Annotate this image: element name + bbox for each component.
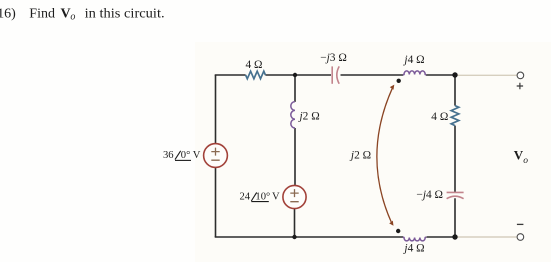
wire bottom <box>215 236 456 238</box>
minus sign terminal <box>517 223 524 225</box>
svg-text:−j4 Ω: −j4 Ω <box>416 189 443 201</box>
polarity dot top <box>397 79 401 83</box>
arrowhead bottom <box>389 221 393 226</box>
wire middle vertical <box>294 75 297 237</box>
svg-text:V: V <box>61 7 71 22</box>
node bottom right <box>452 234 457 239</box>
node top middle <box>293 73 297 77</box>
svg-text:j4 Ω: j4 Ω <box>402 54 424 66</box>
inductor j4 top <box>403 71 427 75</box>
svg-text:in this circuit.: in this circuit. <box>85 7 165 22</box>
svg-text:24: 24 <box>240 191 251 202</box>
capacitor -j3 <box>332 66 339 83</box>
plus sign terminal <box>517 83 523 89</box>
svg-text:j2 Ω: j2 Ω <box>349 149 371 161</box>
arrowhead top <box>390 85 395 90</box>
svg-text:V: V <box>193 150 201 161</box>
svg-text:−j3 Ω: −j3 Ω <box>320 52 347 64</box>
svg-text:V: V <box>514 147 524 162</box>
wire top <box>215 74 456 76</box>
node bottom middle <box>292 235 296 239</box>
label 36 angle 0 V <box>163 150 201 161</box>
resistor R top 4ohm <box>246 71 266 79</box>
svg-text:o: o <box>70 12 75 23</box>
svg-text:4 Ω: 4 Ω <box>245 59 262 71</box>
svg-text:j2 Ω: j2 Ω <box>298 110 320 122</box>
polarity dot bottom <box>396 229 400 233</box>
terminal bottom <box>517 234 524 241</box>
svg-text:Find: Find <box>29 7 55 22</box>
label 24 angle 10 V <box>240 191 280 202</box>
svg-text:36: 36 <box>163 150 174 161</box>
wire right vertical <box>454 75 456 237</box>
svg-text:o: o <box>523 156 528 166</box>
terminal top <box>517 72 524 79</box>
inductor j4 bottom <box>403 237 427 241</box>
scan background tint over circuit area <box>195 42 551 262</box>
source V2 24V <box>283 185 306 208</box>
svg-text:0°: 0° <box>181 150 191 161</box>
inductor j2 middle <box>291 102 295 128</box>
mutual coupling arrow <box>377 88 392 222</box>
svg-text:16): 16) <box>0 7 16 22</box>
svg-text:j4 Ω: j4 Ω <box>402 242 424 254</box>
source V1 36V <box>204 144 228 168</box>
wire light to bottom terminal <box>456 236 517 238</box>
wire light to top terminal <box>456 74 517 76</box>
wire left vertical <box>215 75 217 237</box>
svg-text:10°: 10° <box>255 191 270 202</box>
svg-text:4 Ω: 4 Ω <box>431 111 448 123</box>
svg-text:V: V <box>272 191 280 202</box>
capacitor -j4 <box>447 192 464 198</box>
resistor R right 4ohm <box>451 106 459 126</box>
node top right <box>452 72 457 77</box>
